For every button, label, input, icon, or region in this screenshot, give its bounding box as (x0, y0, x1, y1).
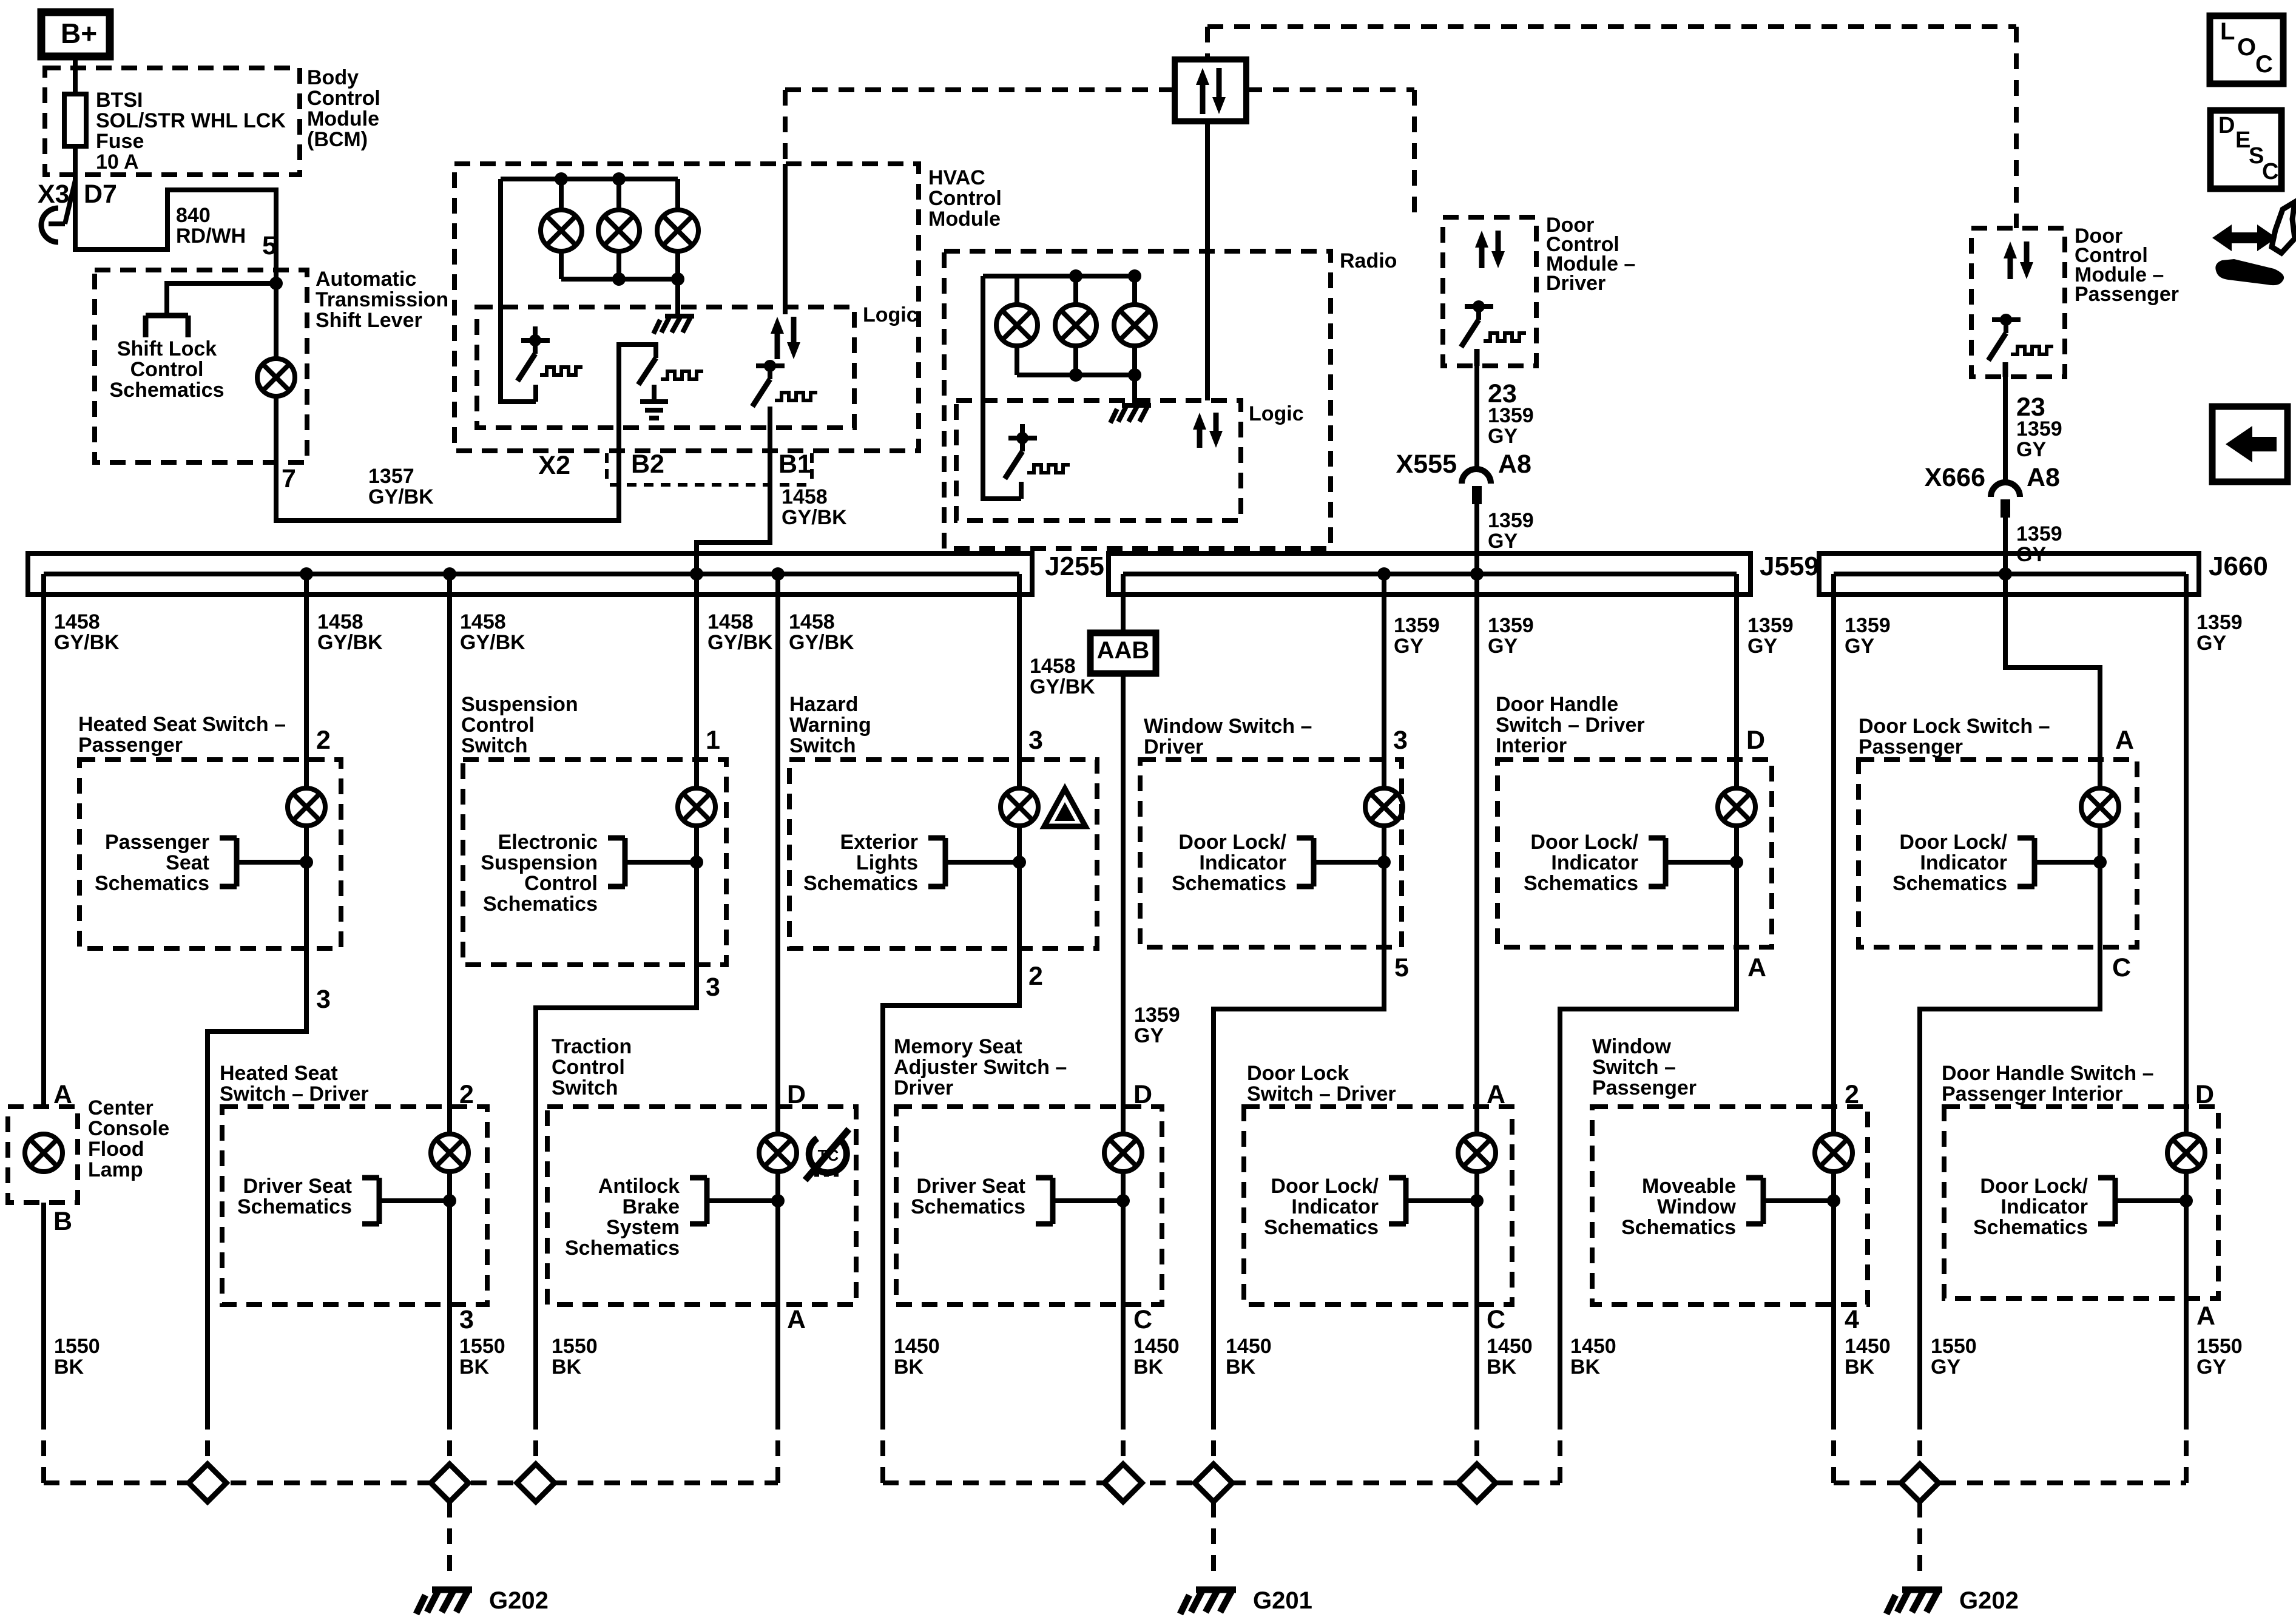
svg-text:C: C (2255, 51, 2273, 78)
bracket exterior lights (928, 838, 1019, 886)
Door Lock Switch - Passenger dashed box (1859, 760, 2137, 947)
HVAC switch 2 with earth ground (652, 385, 657, 400)
shift lock bracket (146, 316, 188, 337)
bracket window passenger (1746, 1178, 1834, 1224)
dashed data wire to DCM driver (1246, 87, 1414, 92)
svg-text:1: 1 (706, 726, 720, 755)
Radio logic up/down arrows (1193, 413, 1223, 448)
Heated Seat Switch - Passenger dashed box (79, 760, 341, 948)
Traction Control Switch dashed box (547, 1107, 856, 1305)
J255 node x1148 (690, 567, 703, 581)
J559 node x2434 (1470, 567, 1484, 581)
svg-text:3: 3 (1393, 726, 1408, 755)
svg-text:Logic: Logic (863, 303, 918, 326)
wire lamp to pin 7 (274, 396, 279, 462)
ground G202 right (1886, 1590, 1942, 1614)
battery B+ terminal (41, 12, 110, 56)
door handle driver lamp (1718, 788, 1755, 826)
Radio illumination lamp bus (983, 274, 1135, 279)
dashed wire to G202 left (447, 1502, 452, 1578)
icon arrow-wrench (2212, 224, 2277, 251)
splice diamond 6 (1458, 1464, 1496, 1502)
wire 1359 GY to door handle switch passenger (2184, 574, 2189, 1135)
wire 1359 GY to memory seat switch (1121, 673, 1126, 1135)
door lock driver lamp (1458, 1134, 1496, 1172)
svg-text:D: D (2195, 1080, 2214, 1109)
wire door lock passenger pinC to G202 (1920, 947, 2100, 1414)
svg-text:2: 2 (1028, 962, 1043, 991)
suspension switch lamp (678, 788, 715, 826)
Door Control Module - Passenger dashed box (1971, 228, 2065, 377)
wire to lamp (274, 283, 279, 359)
Door Handle Switch - Driver Interior dashed box (1497, 760, 1772, 947)
Radio lamp 3 (1114, 305, 1155, 346)
svg-text:X666: X666 (1925, 463, 1985, 492)
svg-text:C: C (1133, 1305, 1152, 1334)
HVAC lamp 1 (541, 210, 582, 251)
hazard switch lamp (1001, 788, 1038, 826)
svg-text:Door Handle Switch –Passenger: Door Handle Switch –Passenger Interior (1942, 1062, 2154, 1106)
svg-text:3: 3 (459, 1305, 474, 1334)
switch1 lower stub (533, 385, 538, 402)
svg-text:G201: G201 (1253, 1587, 1312, 1614)
J255 node x741 (443, 567, 456, 581)
shift lever illumination lamp (257, 359, 295, 396)
traction control lamp (759, 1134, 797, 1172)
svg-text:B1: B1 (778, 450, 812, 479)
inline connector X3 clip (41, 208, 58, 242)
svg-text:4: 4 (1845, 1305, 1859, 1334)
HVAC switch 2 blade (653, 345, 658, 358)
wire from data link box to radio logic (1205, 121, 1210, 400)
junction block J559 (1109, 553, 1751, 595)
icon LOC box (2210, 16, 2283, 84)
wire from dashed link into HVAC (783, 164, 788, 314)
hazard warning triangle icon (1044, 789, 1086, 826)
svg-text:A8: A8 (1498, 450, 1531, 479)
svg-text:J660: J660 (2209, 552, 2268, 581)
bracket door handle passenger (2098, 1178, 2186, 1224)
svg-text:D: D (2218, 113, 2235, 138)
Radio lamp return bus (1017, 373, 1135, 377)
svg-text:C: C (2262, 159, 2278, 184)
Radio chassis ground (1110, 405, 1151, 423)
ground bus segment middle (883, 1480, 1560, 1485)
memory seat lamp (1104, 1134, 1142, 1172)
Radio dimming switch (1005, 424, 1037, 479)
wire branch to shift lock bracket (167, 283, 276, 316)
splice diamond 2 (431, 1464, 468, 1502)
dashed wire up from data link (1205, 27, 1210, 59)
bracket memory seat (1036, 1178, 1123, 1224)
wire 1359 GY to door lock switch driver (1474, 574, 1479, 1135)
wire 1458 GY/BK to hazard switch (1017, 574, 1022, 789)
svg-text:O: O (2237, 34, 2256, 61)
wire 1357 GY/BK to HVAC B2 (276, 345, 656, 521)
wire 1458 GY/BK to traction control switch (775, 574, 780, 1135)
svg-text:G202: G202 (1959, 1587, 2019, 1614)
connector X2 interface (610, 483, 813, 487)
Center Console Flood Lamp dashed box (8, 1107, 78, 1203)
DCM driver arrows (1475, 231, 1505, 268)
wire 1359 GY to door handle switch driver (1734, 574, 1739, 789)
svg-text:A: A (1747, 953, 1766, 982)
Radio dashed box (944, 251, 1331, 549)
svg-text:Logic: Logic (1249, 402, 1304, 425)
bracket door lock passenger (2017, 838, 2100, 886)
HVAC dimming switch 1 (518, 326, 550, 381)
svg-text:D: D (1133, 1080, 1152, 1109)
dashed data wire top (1207, 24, 2016, 29)
traction control off icon (809, 1138, 846, 1173)
dashed wire to G202 right (1917, 1502, 1922, 1578)
window switch driver lamp (1365, 788, 1403, 826)
wire 1458 GY/BK to flood lamp (41, 574, 46, 1106)
wire door handle driver pinA jog down (1560, 947, 1737, 1414)
wire to ground bus via jog (536, 965, 697, 1414)
wire 1458 GY/BK to heated seat switch driver (447, 574, 452, 1135)
dashed data wire to DCM passenger (2014, 27, 2019, 228)
center console flood lamp (25, 1134, 62, 1172)
svg-text:X3: X3 (38, 180, 70, 209)
svg-text:A: A (787, 1305, 806, 1334)
door handle passenger lamp (2167, 1134, 2205, 1172)
svg-text:J559: J559 (1760, 552, 1819, 581)
svg-text:A: A (2115, 726, 2134, 755)
HVAC lamp return bus (561, 277, 678, 282)
junction block J660 (1819, 553, 2199, 595)
wire J559 to AAB (1121, 574, 1126, 633)
J559 node x2281 (1377, 567, 1391, 581)
svg-text:C: C (2112, 953, 2131, 982)
inline connector X666 A8 (1991, 482, 2020, 497)
wire 23 1359 GY (1474, 366, 1479, 468)
heated seat passenger lamp (288, 788, 325, 826)
svg-text:G202: G202 (489, 1587, 549, 1614)
icon back-arrow box (2212, 407, 2288, 482)
J660 node X666 wire (1999, 567, 2012, 581)
Suspension Control Switch dashed box (463, 760, 726, 965)
door lock passenger lamp (2081, 788, 2119, 826)
DCM driver output switch (1461, 300, 1493, 347)
wire 1458 GY/BK B1 to J255 (697, 407, 770, 574)
wire lamp bus to logic switch 1 (501, 179, 536, 402)
HVAC illumination lamp bus (501, 177, 678, 181)
inline connector X555 A8 (1462, 469, 1491, 484)
bracket heated driver (362, 1178, 450, 1224)
splice diamond 4 (1104, 1464, 1142, 1502)
svg-text:L: L (2220, 18, 2235, 45)
DCM passenger arrows (2004, 241, 2033, 279)
svg-text:AAB: AAB (1097, 637, 1150, 664)
window switch passenger lamp (1815, 1134, 1852, 1172)
svg-text:A: A (1487, 1080, 1505, 1109)
wire pin3 to ground bus (208, 948, 306, 1414)
HVAC Logic dashed box (477, 307, 854, 428)
svg-text:X555: X555 (1396, 450, 1457, 479)
J255 node x505 (300, 567, 313, 581)
Memory Seat Adjuster Switch - Driver dashed box (896, 1107, 1162, 1305)
svg-text:5: 5 (1394, 953, 1409, 982)
wire 1359 GY to window switch passenger (1831, 574, 1836, 1135)
bracket door handle driver (1649, 838, 1737, 886)
DCM passenger output switch (1988, 314, 2021, 360)
svg-text:C: C (1487, 1305, 1505, 1334)
connector AAB (1090, 633, 1156, 673)
wire 840 RD/WH step (75, 179, 276, 283)
junction block J255 (28, 553, 1032, 595)
svg-text:5: 5 (262, 231, 277, 260)
Radio lamp 1 (996, 305, 1038, 346)
Automatic Transmission Shift Lever dashed box (95, 270, 307, 462)
radio switch lower stub (1019, 482, 1024, 499)
Door Lock Switch - Driver dashed box (1244, 1107, 1512, 1305)
svg-text:A8: A8 (2027, 463, 2060, 492)
svg-text:B+: B+ (61, 18, 97, 49)
ground G201 (1180, 1590, 1236, 1614)
ground bus segment right (1834, 1480, 2186, 1485)
ground G202 left (416, 1590, 472, 1614)
ground bus segment left (44, 1480, 778, 1485)
wire window driver pin5 to G201 (1214, 947, 1384, 1414)
Radio lamp 2 (1055, 305, 1096, 346)
wire stub to clip (49, 221, 65, 226)
svg-text:J255: J255 (1045, 552, 1104, 581)
J255 node x1282 (771, 567, 785, 581)
icon DESC box (2210, 110, 2281, 189)
wire 23 1359 GY passenger (2003, 377, 2008, 482)
splice diamond 1 (189, 1464, 226, 1502)
splice diamond 7 (1901, 1464, 1939, 1502)
wire 1458 GY/BK to suspension control switch (694, 574, 699, 789)
HVAC switch 3 (752, 360, 785, 407)
wire 1359 GY to door lock switch passenger (2005, 574, 2100, 789)
Body Control Module (BCM) dashed box (45, 68, 300, 175)
svg-text:Driver SeatSchematics: Driver SeatSchematics (911, 1175, 1025, 1218)
Door Handle Switch - Passenger Interior dashed box (1944, 1107, 2218, 1298)
fuse BTSI SOL/STR WHL LCK 10A (64, 94, 86, 146)
splice diamond 5 (1195, 1464, 1232, 1502)
svg-text:3: 3 (706, 973, 720, 1002)
wire to chassis ground (1132, 375, 1137, 404)
bracket window driver (1297, 838, 1384, 886)
HVAC lamp 3 (657, 210, 698, 251)
HVAC Control Module dashed box (454, 164, 919, 451)
bracket suspension (608, 838, 697, 886)
svg-text:D: D (1746, 726, 1765, 755)
HVAC chassis ground (653, 316, 694, 334)
svg-text:3: 3 (316, 985, 331, 1014)
svg-text:7: 7 (282, 464, 296, 493)
Window Switch - Driver dashed box (1140, 760, 1402, 947)
Radio Logic dashed box (956, 400, 1241, 521)
Door Control Module - Driver dashed box (1443, 217, 1536, 366)
splice diamond 3 (517, 1464, 555, 1502)
HVAC up/down arrows (771, 317, 800, 359)
data link arrows (1196, 68, 1226, 114)
svg-text:B: B (53, 1207, 72, 1236)
Hazard Warning Switch dashed box (789, 760, 1097, 948)
bracket door lock driver (1389, 1178, 1477, 1224)
svg-text:2: 2 (1845, 1080, 1859, 1109)
Heated Seat Switch - Driver dashed box (222, 1107, 487, 1305)
wire hazard pin2 jog down (883, 948, 1019, 1414)
svg-text:X2: X2 (538, 451, 570, 480)
svg-text:D: D (787, 1080, 806, 1109)
svg-text:D7: D7 (84, 180, 117, 209)
svg-text:2: 2 (316, 726, 331, 755)
dashed data wire to HVAC (785, 87, 1175, 92)
svg-text:ElectronicSuspensionControlSch: ElectronicSuspensionControlSchematics (481, 831, 598, 916)
svg-text:3: 3 (1028, 726, 1043, 755)
wire B+ to fuse (73, 56, 78, 95)
heated seat driver lamp (431, 1134, 468, 1172)
junction node pin5 (269, 277, 283, 290)
bracket traction (690, 1178, 778, 1224)
HVAC lamp 2 (598, 210, 640, 251)
wire to chassis ground (675, 279, 680, 315)
dashed wire to G201 (1211, 1502, 1216, 1578)
wire fuse to D7 (73, 146, 78, 180)
svg-text:Radio: Radio (1340, 249, 1397, 272)
serial data link symbol box (1175, 59, 1246, 121)
Window Switch - Passenger dashed box (1592, 1107, 1868, 1305)
svg-text:B2: B2 (631, 450, 664, 479)
wire lamp bus to radio logic switch (983, 276, 1021, 499)
svg-text:Driver SeatSchematics: Driver SeatSchematics (237, 1175, 352, 1218)
diagonal connector stroke (65, 180, 75, 224)
svg-text:2: 2 (459, 1080, 474, 1109)
wire 1359 GY to window switch driver (1382, 574, 1386, 789)
bracket passenger seat (220, 838, 306, 886)
svg-text:A: A (2196, 1301, 2215, 1331)
wire 1458 GY/BK to heated seat switch passenger (304, 574, 309, 789)
